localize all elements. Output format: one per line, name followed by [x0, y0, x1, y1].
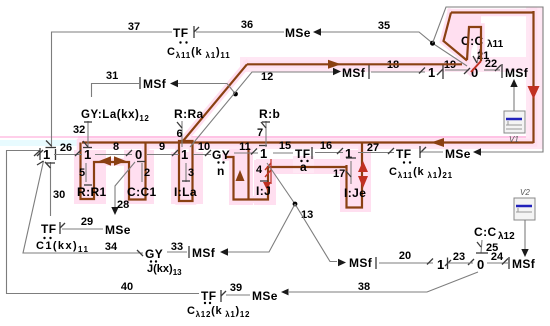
- svg-text:C:C1: C:C1: [127, 185, 157, 199]
- svg-text:λ12: λ12: [498, 231, 515, 242]
- svg-text:MSf: MSf: [192, 246, 216, 260]
- svg-text:27: 27: [367, 142, 379, 154]
- magenta highlight line: [0, 136, 543, 138]
- svg-text:5: 5: [79, 167, 85, 179]
- causal red arrow up I:Je: [358, 161, 368, 172]
- svg-text:6: 6: [177, 128, 183, 140]
- signal wire dotA to MSe right: [433, 7, 544, 152]
- causal path bond18 row: [247, 63, 462, 65]
- wire bond15: [273, 152, 293, 154]
- causal path red slash to 0: [471, 61, 481, 72]
- svg-text:MSf: MSf: [505, 66, 529, 80]
- wire bond22: [484, 69, 500, 71]
- signal wire from dot B: [178, 84, 236, 95]
- source MSf right: [501, 64, 503, 78]
- wire bond40: [7, 151, 200, 294]
- bond 32: [87, 121, 89, 147]
- bond 5: [85, 163, 87, 182]
- svg-text:TF: TF: [173, 26, 188, 40]
- bond 3: [185, 163, 187, 182]
- svg-text:I:J: I:J: [256, 184, 271, 198]
- source MSf (33): [188, 246, 190, 258]
- wire bond36: [196, 31, 284, 33]
- arrow into MSe mid right: [473, 148, 481, 156]
- svg-text:1: 1: [428, 65, 436, 80]
- bond 30: [50, 162, 52, 216]
- svg-text:8: 8: [113, 141, 119, 153]
- causal path diagonal to 1: [183, 64, 247, 141]
- junction 1 D: [259, 145, 267, 147]
- svg-text:MSf: MSf: [512, 257, 536, 271]
- svg-text:TF: TF: [295, 147, 310, 161]
- cyan artifact band left: [0, 140, 132, 146]
- svg-text:MSe: MSe: [285, 26, 311, 40]
- node dot A: [430, 41, 435, 46]
- bond 25: [481, 240, 482, 253]
- svg-text:1: 1: [437, 257, 445, 272]
- svg-text:21: 21: [477, 50, 489, 62]
- causal path arrow left: [431, 138, 444, 147]
- node dot C: [293, 202, 298, 207]
- svg-text:34: 34: [105, 241, 118, 253]
- wire bond37: [52, 32, 173, 147]
- wire bond29: [62, 228, 103, 230]
- svg-text:39: 39: [230, 282, 242, 294]
- svg-text:32: 32: [73, 124, 85, 136]
- svg-text:11: 11: [239, 141, 251, 153]
- bond 34 wire: [23, 161, 143, 253]
- svg-text:GY:La(kx)12: GY:La(kx)12: [81, 109, 149, 123]
- svg-text:MSf: MSf: [143, 77, 167, 91]
- causal path red arrow down right edge: [528, 86, 540, 99]
- svg-text:I:Je: I:Je: [344, 186, 366, 200]
- svg-text:23: 23: [453, 251, 465, 263]
- svg-text:28: 28: [117, 199, 129, 211]
- pink glow boxes around elements: [74, 150, 106, 204]
- half arrow ticks: [75, 65, 508, 265]
- svg-text:17: 17: [333, 168, 345, 180]
- bond 7: [265, 121, 267, 147]
- junction 1 B: [83, 147, 92, 149]
- svg-text:0: 0: [477, 257, 485, 272]
- svg-text:38: 38: [358, 281, 370, 293]
- bond 6: [181, 121, 183, 147]
- svg-text:26: 26: [60, 142, 72, 154]
- svg-text:4: 4: [256, 164, 263, 176]
- svg-text:λ11: λ11: [487, 39, 504, 50]
- scope V2: [514, 188, 535, 257]
- source MSf right bottom: [508, 257, 510, 269]
- svg-text:1: 1: [345, 146, 353, 161]
- bond13 wire: [267, 163, 295, 204]
- svg-text:9: 9: [159, 141, 165, 153]
- svg-text:30: 30: [53, 189, 65, 201]
- causal loop arrows facing: [99, 156, 111, 166]
- svg-text:MSe: MSe: [105, 223, 131, 237]
- svg-text:TF: TF: [396, 147, 411, 161]
- svg-text:TF: TF: [41, 222, 56, 236]
- svg-text:1: 1: [181, 147, 189, 162]
- svg-text:16: 16: [320, 140, 332, 152]
- svg-text:25: 25: [486, 242, 498, 254]
- bond 17: [350, 161, 352, 184]
- wire bond33: [167, 251, 187, 253]
- svg-text:3: 3: [188, 167, 194, 179]
- svg-text:MSf: MSf: [342, 66, 366, 80]
- causal box I:La: [179, 141, 193, 201]
- svg-text:37: 37: [128, 21, 140, 33]
- svg-text:MSe: MSe: [445, 147, 471, 161]
- svg-text:R:Ra: R:Ra: [174, 107, 204, 121]
- pink band right edge vertical: [526, 7, 543, 148]
- wire bond23: [448, 262, 473, 264]
- wire bond20: [379, 262, 433, 264]
- wire bond16: [315, 152, 343, 154]
- wire bond18: [371, 71, 425, 73]
- svg-text:36: 36: [241, 19, 253, 31]
- bond 4: [270, 159, 272, 184]
- svg-text:20: 20: [399, 250, 411, 262]
- svg-text:R:R1: R:R1: [77, 185, 107, 199]
- svg-text:n: n: [217, 164, 225, 178]
- causal loop I:J: [226, 148, 347, 200]
- value J(kx)13: [150, 260, 152, 262]
- svg-text:a: a: [300, 160, 307, 174]
- pink glow under brown causal paths: [82, 11, 534, 143]
- svg-text:7: 7: [257, 127, 263, 139]
- arrow into MSf (12): [333, 68, 341, 76]
- signal to MSf33: [228, 204, 295, 252]
- wire TF to MSe: [421, 151, 443, 153]
- causal loop I:Je: [347, 143, 363, 208]
- causal loop R1 C1: [81, 143, 146, 200]
- causal path arrow right: [328, 60, 341, 69]
- wire bond35: [321, 32, 467, 66]
- wire bond27: [358, 152, 394, 154]
- bond 2: [141, 163, 143, 182]
- svg-text:R:b: R:b: [259, 107, 280, 121]
- wire bond19: [445, 69, 469, 71]
- bond 38 wire: [289, 272, 478, 292]
- wire bond24: [487, 262, 508, 264]
- pink band bond18 row: [240, 57, 543, 72]
- svg-text:I:La: I:La: [174, 185, 197, 199]
- wire bond10: [193, 154, 211, 156]
- causal red arrow down I:Je: [358, 176, 368, 188]
- svg-text:35: 35: [378, 20, 390, 32]
- node dot B: [233, 92, 238, 97]
- svg-text:29: 29: [81, 216, 93, 228]
- bond 28 wire: [115, 162, 135, 210]
- causal path long horizontal: [82, 141, 534, 143]
- svg-text:1: 1: [84, 147, 92, 162]
- causal loop arrow up: [236, 170, 245, 181]
- svg-text:40: 40: [121, 281, 133, 293]
- causal red ticks bond 4: [265, 163, 271, 170]
- signal to MSf20: [295, 204, 337, 262]
- pink fill pentagon interior: [444, 13, 482, 61]
- svg-text:12: 12: [261, 71, 273, 83]
- signal arrow into MSf31: [170, 80, 178, 88]
- svg-text:GY: GY: [145, 247, 163, 261]
- svg-text:15: 15: [279, 140, 291, 152]
- svg-text:0: 0: [135, 147, 143, 162]
- svg-text:1: 1: [43, 147, 51, 162]
- svg-text:V1: V1: [509, 135, 519, 144]
- bond12 wire diagonal: [190, 72, 333, 147]
- causal path pentagon top right: [444, 11, 534, 143]
- svg-text:31: 31: [106, 70, 118, 82]
- svg-text:MSe: MSe: [252, 289, 278, 303]
- svg-text:TF: TF: [201, 289, 216, 303]
- svg-text:2: 2: [144, 167, 150, 179]
- wire bond39: [226, 294, 250, 296]
- bond 21 C to 0: [477, 49, 480, 63]
- svg-text:1: 1: [260, 146, 268, 161]
- svg-text:10: 10: [198, 141, 210, 153]
- svg-text:V2: V2: [520, 188, 530, 197]
- arrow into MSe: [313, 28, 321, 36]
- pink highlight band mid row: [78, 136, 543, 149]
- wire bond26: [54, 154, 82, 156]
- wire bond11: [234, 152, 258, 154]
- svg-text:C:C: C:C: [474, 225, 497, 239]
- bond 31 wire: [92, 84, 140, 98]
- svg-text:GY: GY: [212, 148, 230, 162]
- scope V1: [504, 79, 525, 144]
- svg-text:33: 33: [171, 241, 183, 253]
- causal red arrow down I:J: [263, 182, 271, 190]
- wire bond9: [147, 154, 179, 156]
- svg-text:MSf: MSf: [349, 256, 373, 270]
- svg-text:13: 13: [301, 209, 313, 221]
- wire bond8: [95, 154, 132, 156]
